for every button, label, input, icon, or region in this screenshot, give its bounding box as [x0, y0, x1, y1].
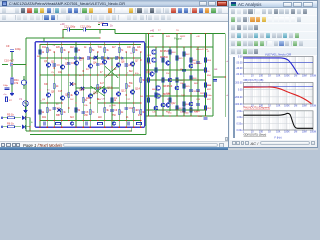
- capacitor C3: [53, 64, 57, 66]
- svg-text:1k: 1k: [49, 110, 52, 112]
- junction: [176, 69, 177, 70]
- junction: [162, 79, 163, 80]
- junction: [183, 115, 184, 116]
- resistor R50: [205, 58, 207, 63]
- svg-text:I1: I1: [18, 80, 21, 82]
- capacitor CC6: [127, 122, 129, 126]
- transistor Q3: [74, 61, 78, 65]
- svg-text:Q25: Q25: [147, 63, 152, 65]
- svg-text:100: 100: [259, 75, 264, 78]
- wire: [2, 64, 8, 66]
- svg-text:-200.00: -200.00: [234, 96, 243, 99]
- resistor R51: [205, 83, 207, 88]
- svg-text:5k: 5k: [92, 50, 95, 52]
- svg-text:GD(V(OUT)) (Secs): GD(V(OUT)) (Secs): [244, 132, 267, 136]
- junction: [162, 69, 163, 70]
- capacitor CB2: [87, 56, 89, 60]
- junction: [104, 127, 105, 128]
- capacitor C10: [125, 107, 129, 109]
- svg-text:Q20: Q20: [146, 72, 151, 74]
- wire: [190, 34, 192, 117]
- junction: [148, 115, 149, 116]
- junction: [126, 51, 127, 52]
- svg-text:2k0: 2k0: [98, 117, 102, 119]
- svg-text:C3: C3: [57, 65, 61, 67]
- junction: [176, 95, 177, 96]
- gain plot grid: [243, 57, 245, 75]
- svg-text:Q22: Q22: [171, 103, 176, 105]
- node dot: [99, 29, 100, 30]
- junction: [83, 120, 84, 121]
- svg-text:100M: 100M: [310, 75, 316, 78]
- junction: [54, 67, 55, 68]
- node dot: [25, 100, 26, 101]
- wire: [111, 58, 113, 127]
- capacitor C6: [125, 64, 129, 66]
- junction: [119, 120, 120, 121]
- AC min button: [283, 2, 292, 7]
- junction: [97, 120, 98, 121]
- wire: [97, 52, 99, 113]
- svg-text:DB(V(OUT)) (dB): DB(V(OUT)) (dB): [244, 78, 264, 82]
- wire: [118, 42, 120, 45]
- svg-text:C4: C4: [71, 63, 75, 65]
- svg-text:10K: 10K: [276, 105, 281, 108]
- source V1: [23, 101, 29, 107]
- svg-text:33k: 33k: [84, 105, 88, 107]
- resistor R12: [61, 48, 63, 53]
- resistor R23: [75, 108, 77, 113]
- wire: [82, 58, 84, 127]
- node dot: [25, 64, 26, 65]
- svg-text:F (Hz): F (Hz): [274, 136, 281, 140]
- junction: [75, 57, 76, 58]
- delay curve GD(V(OUT)): [244, 113, 314, 128]
- AC page tab: [251, 141, 259, 146]
- transistor Q12: [102, 89, 106, 93]
- svg-text:8k2: 8k2: [129, 71, 133, 73]
- svg-text:2SC: 2SC: [166, 73, 171, 75]
- svg-text:3k: 3k: [63, 112, 66, 114]
- wire: [140, 52, 142, 127]
- delay plot grid: [243, 111, 245, 130]
- junction: [155, 46, 156, 47]
- junction: [90, 74, 91, 75]
- svg-text:Q4: Q4: [93, 61, 97, 65]
- transistor Q11: [88, 94, 92, 98]
- schematic scroll corner arrow (down): [225, 137, 228, 141]
- AC title bar: [229, 1, 317, 8]
- svg-text:C33: C33: [196, 99, 201, 101]
- svg-text:10M: 10M: [302, 75, 307, 78]
- junction: [133, 44, 134, 45]
- junction: [133, 74, 134, 75]
- resistor R33: [140, 110, 142, 115]
- wire: [98, 102, 141, 104]
- svg-text:+40: +40: [196, 36, 200, 38]
- capacitor C50: [213, 80, 217, 82]
- svg-text:R7: R7: [9, 100, 13, 102]
- capacitor CB6: [115, 56, 117, 60]
- svg-text:C5: C5: [51, 72, 55, 74]
- schematic scroll corner arrow (right): [221, 141, 225, 145]
- junction: [99, 37, 100, 38]
- svg-text:C30 100n: C30 100n: [192, 63, 202, 65]
- svg-text:R41: R41: [179, 58, 184, 60]
- junction: [83, 57, 84, 58]
- svg-text:2k: 2k: [121, 112, 124, 114]
- AC toolbars container: [229, 8, 317, 56]
- wire: [105, 65, 119, 78]
- svg-text:8k: 8k: [135, 50, 138, 52]
- svg-text:1m: 1m: [114, 98, 117, 100]
- svg-text:R6 1k: R6 1k: [7, 122, 14, 126]
- svg-text:PH(V(OUT)) (Degrees): PH(V(OUT)) (Degrees): [244, 106, 271, 110]
- svg-text:C31 1u: C31 1u: [192, 91, 200, 93]
- junction: [68, 51, 69, 52]
- resistor R43: [190, 58, 192, 63]
- svg-text:100: 100: [127, 47, 132, 49]
- svg-text:C22 100p: C22 100p: [80, 25, 92, 29]
- svg-text:56k: 56k: [129, 83, 134, 85]
- resistor R19: [46, 108, 48, 113]
- junction: [61, 102, 62, 103]
- svg-text:330: 330: [44, 84, 49, 86]
- resistor R45: [183, 84, 185, 89]
- svg-text:7k: 7k: [92, 112, 95, 114]
- svg-text:+40: +40: [150, 30, 155, 33]
- svg-text:2k: 2k: [49, 50, 52, 52]
- svg-text:22R: 22R: [166, 93, 170, 95]
- resistor RR16360: [162, 58, 164, 63]
- resistor R13: [75, 48, 77, 53]
- capacitor CR19190: [189, 89, 193, 91]
- diode DB5: [108, 57, 111, 60]
- wire: [11, 66, 13, 77]
- svg-text:a: a: [31, 121, 33, 124]
- junction: [97, 87, 98, 88]
- junction: [140, 59, 141, 60]
- svg-text:Q9: Q9: [65, 93, 69, 97]
- transistor Q1: [46, 63, 50, 67]
- junction: [83, 127, 84, 128]
- junction: [205, 33, 206, 34]
- node box (blue selection rectangle): [35, 42, 144, 128]
- svg-text:47: 47: [100, 72, 103, 74]
- svg-text:9k: 9k: [42, 112, 45, 114]
- svg-text:0.00: 0.00: [238, 56, 243, 59]
- diode mark: [70, 82, 73, 85]
- wire: [61, 45, 63, 128]
- svg-text:+5v: +5v: [3, 94, 7, 96]
- junction: [75, 130, 76, 131]
- transistor QR19166: [189, 64, 193, 68]
- AC max button: [293, 2, 302, 7]
- junction: [90, 127, 91, 128]
- resistor R6: [8, 126, 15, 128]
- svg-text:9k1: 9k1: [140, 96, 144, 98]
- junction: [119, 44, 120, 45]
- svg-text:С15: С15: [58, 91, 63, 93]
- svg-text:R50: R50: [207, 75, 212, 77]
- svg-text:10K: 10K: [276, 131, 281, 134]
- junction: [148, 79, 149, 80]
- junction: [39, 127, 40, 128]
- resistor RR148.580: [148, 78, 150, 83]
- wire: [104, 45, 106, 128]
- svg-text:+40: +40: [60, 22, 65, 26]
- main bottom frame: [0, 147, 228, 150]
- diode mark: [94, 56, 97, 59]
- phase plot grid: [243, 83, 245, 105]
- diode DB7: [122, 57, 125, 60]
- junction: [176, 46, 177, 47]
- svg-text:C9: C9: [114, 110, 118, 112]
- svg-text:0R22: 0R22: [180, 36, 186, 38]
- junction: [162, 46, 163, 47]
- wire: [75, 45, 77, 128]
- AC title icon: [231, 2, 236, 6]
- svg-text:C10 4u7: C10 4u7: [4, 59, 14, 63]
- junction: [111, 130, 112, 131]
- wire: [197, 47, 199, 111]
- capacitor C8: [81, 111, 85, 113]
- main window frame: [0, 0, 228, 150]
- junction: [68, 74, 69, 75]
- svg-text:Q10: Q10: [79, 88, 84, 92]
- capacitor C5: [96, 63, 100, 65]
- capacitor C4: [67, 62, 71, 64]
- junction: [148, 109, 149, 110]
- resistor R47: [176, 106, 178, 111]
- main title bar: [0, 0, 228, 7]
- transistor QR17080: [168, 78, 172, 82]
- junction: [148, 46, 149, 47]
- svg-text:C5: C5: [100, 64, 104, 66]
- wire: [53, 52, 55, 127]
- svg-text:Q14: Q14: [135, 87, 140, 91]
- svg-text:7: 7: [58, 115, 60, 117]
- wire: [40, 44, 141, 46]
- junction: [54, 120, 55, 121]
- svg-text:15: 15: [132, 47, 135, 49]
- wire: [133, 42, 135, 45]
- wire: [86, 30, 100, 34]
- junction: [47, 102, 48, 103]
- toolbar row 1: [0, 7, 228, 14]
- svg-text:91: 91: [126, 117, 129, 119]
- junction: [119, 102, 120, 103]
- junction: [197, 115, 198, 116]
- junction: [155, 79, 156, 80]
- svg-text:100p: 100p: [3, 85, 9, 87]
- svg-text:out: out: [214, 68, 218, 71]
- svg-text:3k3: 3k3: [70, 117, 74, 119]
- wire: [63, 30, 67, 39]
- resistor RR15695: [155, 93, 157, 98]
- svg-text:+40: +40: [150, 36, 154, 38]
- junction: [190, 115, 191, 116]
- wire: [133, 45, 135, 128]
- resistor R25: [89, 110, 91, 115]
- main min button: [199, 1, 207, 6]
- svg-text:100p: 100p: [15, 47, 21, 51]
- svg-text:С17: С17: [126, 99, 131, 101]
- junction: [39, 89, 40, 90]
- transistor Q21: [166, 61, 170, 65]
- svg-text:1n: 1n: [86, 69, 89, 71]
- svg-text:R45: R45: [186, 86, 191, 88]
- junction: [176, 115, 177, 116]
- transistor M1 IRF9540: [152, 50, 157, 55]
- svg-text:1M: 1M: [294, 105, 297, 108]
- svg-text:-20.00: -20.00: [236, 61, 243, 64]
- wire: [146, 69, 206, 71]
- resistor R48: [183, 102, 185, 107]
- diode DB3: [94, 57, 97, 60]
- junction: [97, 98, 98, 99]
- svg-text:200.00: 200.00: [235, 82, 243, 85]
- svg-text:R5 1k: R5 1k: [7, 113, 14, 117]
- resistor RB7: [137, 122, 142, 124]
- svg-text:10M: 10M: [302, 131, 307, 134]
- transistor M2 IRF540: [152, 58, 157, 63]
- wire: [145, 116, 147, 135]
- capacitor CC0: [43, 122, 45, 126]
- junction: [90, 57, 91, 58]
- junction: [39, 120, 40, 121]
- transistor Q8: [46, 93, 50, 97]
- svg-text:2k2: 2k2: [70, 47, 74, 49]
- junction: [62, 37, 63, 38]
- junction: [183, 79, 184, 80]
- svg-text:Q1: Q1: [51, 60, 55, 64]
- svg-text:100n: 100n: [207, 95, 213, 97]
- AC title text: [238, 2, 261, 7]
- phase curve PH(V(OUT)): [244, 87, 312, 104]
- svg-text:R45: R45: [166, 36, 171, 38]
- AC plot panel sunken edge: [233, 57, 235, 138]
- svg-text:4k: 4k: [78, 50, 81, 52]
- resistor R15: [104, 48, 106, 53]
- junction: [104, 57, 105, 58]
- transistor Q13: [116, 92, 120, 96]
- junction: [140, 51, 141, 52]
- diode D2: [22, 125, 25, 129]
- transistor M4: [156, 94, 161, 99]
- svg-text:100K: 100K: [284, 75, 290, 78]
- AC bottom bar: [229, 140, 317, 147]
- node dot: [25, 117, 26, 118]
- main max button: [208, 1, 216, 6]
- page tabs text: [23, 143, 75, 148]
- svg-text:1.50u: 1.50u: [237, 110, 244, 113]
- capacitor C7: [53, 107, 57, 109]
- wire: [125, 52, 127, 127]
- svg-text:3k: 3k: [63, 50, 66, 52]
- junction: [97, 74, 98, 75]
- junction: [47, 44, 48, 45]
- resistor RR148.5100: [148, 98, 150, 103]
- junction: [68, 120, 69, 121]
- transistor QB2: [70, 122, 73, 125]
- svg-text:1k: 1k: [114, 100, 117, 102]
- svg-text:15: 15: [47, 89, 50, 91]
- wire: [40, 74, 141, 76]
- svg-text:V1: V1: [19, 97, 23, 101]
- AC h scrollbar: [260, 141, 310, 145]
- wire: [98, 24, 100, 26]
- svg-text:0u1: 0u1: [168, 113, 172, 115]
- wire: [146, 46, 213, 48]
- svg-text:R46: R46: [193, 78, 198, 80]
- wire: [148, 34, 150, 117]
- svg-text:6k: 6k: [106, 50, 109, 52]
- junction: [54, 51, 55, 52]
- toolbar row 2: [0, 14, 228, 22]
- resistor R18: [39, 110, 41, 115]
- junction: [111, 127, 112, 128]
- svg-text:330: 330: [98, 47, 103, 49]
- svg-text:0.50u: 0.50u: [237, 123, 244, 126]
- junction: [83, 70, 84, 71]
- svg-text:IRF9540: IRF9540: [160, 50, 170, 53]
- junction: [111, 74, 112, 75]
- transistor Q10: [74, 91, 78, 95]
- transistor QR17788: [175, 86, 179, 90]
- resistor R46: [190, 76, 192, 81]
- gain curve DB(V(OUT)): [244, 58, 298, 74]
- svg-text:100M: 100M: [310, 105, 316, 108]
- svg-text:100n: 100n: [184, 113, 190, 115]
- svg-text:100M: 100M: [310, 131, 316, 134]
- svg-text:1M: 1M: [294, 75, 297, 78]
- junction: [104, 44, 105, 45]
- resistor R42: [183, 52, 185, 57]
- junction: [190, 69, 191, 70]
- junction: [47, 127, 48, 128]
- junction: [148, 69, 149, 70]
- wire: [15, 126, 22, 128]
- transistor Q9: [60, 96, 64, 100]
- resistor RR170100: [169, 98, 171, 103]
- junction: [169, 115, 170, 116]
- svg-text:47k: 47k: [138, 115, 143, 117]
- capacitor CR198104: [196, 103, 200, 105]
- junction: [97, 51, 98, 52]
- wire: [11, 84, 13, 92]
- AC bottom outer strip: [228, 147, 318, 150]
- svg-text:R21: R21: [42, 117, 47, 119]
- AC scroll arrow: [311, 141, 315, 145]
- svg-text:2k: 2k: [56, 86, 59, 88]
- wire: [213, 76, 225, 78]
- svg-text:T8: T8: [176, 30, 179, 32]
- resistor R26: [97, 85, 99, 90]
- AC plots svg: [228, 52, 318, 140]
- resistor RR184110: [183, 108, 185, 113]
- svg-text:16: 16: [130, 53, 133, 55]
- svg-text:680: 680: [112, 105, 116, 107]
- wire: [100, 30, 115, 34]
- wire: [90, 57, 140, 59]
- junction: [176, 33, 177, 34]
- junction: [75, 120, 76, 121]
- wire: [115, 33, 213, 35]
- wire: [145, 47, 147, 122]
- junction: [205, 115, 206, 116]
- junction: [133, 102, 134, 103]
